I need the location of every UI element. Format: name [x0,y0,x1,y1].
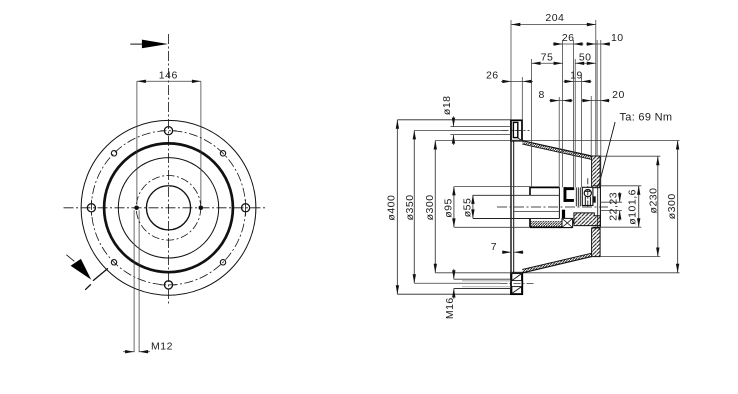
top hole centerline [502,129,530,131]
svg-text:146: 146 [159,70,178,82]
dim ø230 [657,156,659,256]
dim M16 [453,269,455,279]
horizontal centerline [64,207,267,209]
dim 146 arrows [137,80,146,83]
svg-text:20: 20 [612,89,625,101]
svg-text:75: 75 [541,51,554,63]
ø350 extension lines (coincide with hole centerlines) [414,129,501,131]
dim 26 left [501,80,533,82]
plate bottom edge [397,293,511,295]
small hole NE [220,151,225,156]
section arrow top [130,40,168,49]
svg-text:26: 26 [486,70,499,82]
vertical centerline [168,34,170,306]
thin circle [118,158,218,258]
hub right face [558,187,560,218]
dim ø55 [472,195,474,219]
dim 7 [502,251,511,253]
screw shank [584,197,586,205]
svg-text:M16: M16 [444,297,456,319]
plate top tab (bolt boss, section) [511,120,523,141]
section arrow bottom-left [66,255,108,290]
M12 hole edge extension lines [123,210,150,352]
22,23 extension lines [600,201,622,203]
center bore circle [146,186,190,230]
svg-text:ø400: ø400 [386,195,398,221]
main centerline [497,206,608,208]
bolt hole W [87,204,95,212]
cone wall bottom [522,253,591,273]
dim ø400 [396,120,398,294]
dim ø18 [453,116,455,126]
screw head circle [584,190,591,197]
ø18 hole lines [450,126,511,128]
svg-text:M12: M12 [151,340,173,352]
extension verticals [511,20,601,187]
dim ø350 [413,130,415,283]
X-square key block [562,218,573,227]
svg-text:22,23: 22,23 [608,192,620,221]
lower flange hatch polygon [574,213,600,226]
dim 204 [511,24,596,26]
bolt hole N [164,127,172,135]
leader Ta: 69 Nm [599,122,615,185]
bore line bottom (ø55) [473,218,559,220]
bottom hole centerline [501,282,534,284]
hub top edge [530,186,560,188]
clamp lower (black) [562,210,565,224]
dim 146 line [137,80,201,82]
cone wall top [522,141,591,160]
inner pitch circle (dash-dot) [136,176,201,241]
dim 19 [564,80,592,82]
face ring lower [592,228,601,257]
dim 20 [582,100,610,102]
dim 50 [575,62,596,64]
bolt hole cross ticks [91,131,245,285]
ø230 extension lines [600,155,660,157]
screw pocket [582,187,593,205]
thick circle (spigot) [104,143,233,272]
dim ø95 [453,186,455,227]
svg-text:ø350: ø350 [404,194,416,220]
svg-text:ø230: ø230 [647,188,659,214]
dim ø300 left [434,141,436,273]
dim 26 right [553,43,584,45]
svg-text:ø55: ø55 [461,198,473,218]
dim 8 [549,100,572,102]
M12 dim line [123,351,134,353]
ø95 extension top [454,186,530,188]
dim 75 [532,62,563,64]
dim ø101,6 [638,186,640,227]
M16 hole lines [454,278,511,280]
dim 22,23 [619,192,621,202]
pilot stub end face [599,186,601,227]
M16 thread minor lines [462,280,511,282]
small hole SW [111,260,116,265]
small hole NW [111,151,116,156]
plate top edge [397,119,511,121]
outer flange circle [81,120,256,295]
svg-text:ø300: ø300 [666,193,678,219]
svg-text:50: 50 [579,51,592,63]
ø95 extension bottom + hub bottom edge [454,226,530,228]
svg-text:ø95: ø95 [443,198,455,218]
svg-text:204: 204 [545,12,564,24]
ø101,6 extension lines [600,185,641,187]
svg-text:ø18: ø18 [441,96,453,116]
small hole SE [220,260,225,265]
plate bottom tab (bolt boss, section) [511,273,522,295]
bore line top (ø55) [473,194,559,196]
face ring upper [592,156,601,188]
svg-text:Ta: 69 Nm: Ta: 69 Nm [620,112,673,124]
dark block right of screw [593,196,595,202]
M12 arrows [125,350,134,353]
pilot stub second face [597,186,599,227]
flange plate 7mm face line [513,141,515,273]
svg-text:26: 26 [562,32,575,44]
svg-text:ø300: ø300 [424,194,436,220]
bolt hole S [164,281,172,289]
ø300 long extension lines [435,140,679,142]
svg-text:19: 19 [570,70,583,82]
svg-text:8: 8 [539,89,545,101]
clamp upper (black) [564,187,575,190]
sleeve lines [575,187,577,206]
svg-text:ø101,6: ø101,6 [626,189,638,225]
svg-text:10: 10 [611,32,624,44]
svg-text:7: 7 [491,241,497,253]
pilot stub edges [593,185,601,187]
flange plate left face [510,120,512,294]
hub bottom hatch strip [530,221,562,227]
hub left face [529,187,531,196]
keyway line [514,210,559,212]
dim 146 extension lines [137,81,201,204]
M12 hole right (filled) [199,206,204,211]
dim ø300 right [677,141,679,273]
M12 hole left (filled) [134,206,139,211]
dim 10 [586,43,610,45]
bolt circle (dash-dot) [91,131,245,285]
bolt hole E [242,204,250,212]
screw axis centerline [587,178,589,206]
